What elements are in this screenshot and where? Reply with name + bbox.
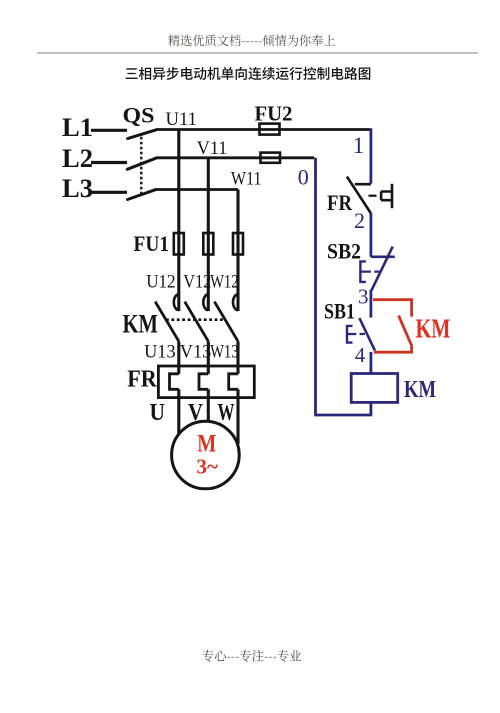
- svg-text:SB2: SB2: [327, 239, 361, 264]
- svg-text:U11: U11: [166, 109, 198, 130]
- svg-text:M: M: [197, 431, 216, 458]
- wire zero rail: [316, 158, 371, 415]
- node L2: [91, 161, 127, 164]
- fuse FU1a: [174, 233, 184, 255]
- pushbutton SB2 hinge: [371, 255, 395, 258]
- wire to motor W: [236, 389, 239, 444]
- SB1 plunger: [347, 326, 353, 343]
- node L3: [91, 191, 127, 194]
- fuse FU1b: [203, 233, 213, 255]
- title: [126, 67, 371, 80]
- svg-text:3: 3: [358, 285, 369, 309]
- svg-text:3~: 3~: [197, 455, 219, 479]
- svg-text:2: 2: [354, 208, 365, 233]
- svg-text:KM: KM: [404, 377, 436, 403]
- wire V11: [156, 156, 314, 159]
- wire U13: [177, 341, 180, 374]
- wire V phase: [207, 158, 210, 311]
- wire U11: [156, 128, 370, 131]
- wire U phase: [177, 130, 180, 312]
- node L1: [91, 129, 127, 132]
- thermal relay FR box: [158, 366, 254, 398]
- fuse FU2b: [261, 153, 281, 163]
- fuse FU2a: [260, 124, 280, 135]
- svg-text:U12: U12: [146, 272, 175, 293]
- wire W phase: [236, 190, 239, 312]
- FR heater jog: [199, 374, 208, 390]
- svg-text:FR: FR: [327, 190, 353, 215]
- contactor KM main contact arc: [203, 294, 208, 310]
- wire to motor V: [207, 389, 210, 421]
- svg-text:KM: KM: [416, 314, 451, 344]
- fuse FU1c: [233, 233, 243, 255]
- svg-text:U: U: [150, 400, 166, 426]
- wire to motor U: [177, 389, 180, 434]
- SB2 plunger: [360, 261, 366, 282]
- switch QS blade 1: [128, 130, 156, 139]
- header rule: [37, 52, 478, 54]
- svg-text:V11: V11: [197, 138, 228, 159]
- svg-text:FU1: FU1: [134, 231, 170, 256]
- svg-text:V12: V12: [183, 272, 211, 293]
- svg-text:L1: L1: [62, 113, 93, 142]
- svg-text:KM: KM: [123, 310, 159, 339]
- svg-text:4: 4: [355, 343, 366, 367]
- wire node1 rail: [369, 128, 372, 183]
- FR contact blade: [347, 177, 371, 213]
- pushbutton SB2 blade: [372, 247, 393, 291]
- coil KM: [351, 374, 398, 403]
- wire W13: [236, 341, 239, 374]
- svg-text:L3: L3: [62, 174, 93, 203]
- footer text: [202, 650, 301, 662]
- svg-text:U13: U13: [144, 342, 176, 363]
- contactor KM main contact blade: [214, 302, 238, 342]
- svg-text:W11: W11: [231, 169, 262, 190]
- svg-text:W13: W13: [210, 342, 239, 363]
- FR contact hinge: [355, 183, 371, 186]
- QS linkage dotted: [140, 137, 142, 196]
- svg-text:SB1: SB1: [324, 298, 355, 323]
- switch QS blade 3: [128, 190, 156, 200]
- FR actuator dash: [369, 195, 377, 197]
- contactor KM main contact arc: [233, 294, 238, 310]
- KM linkage dotted: [166, 318, 225, 321]
- svg-text:W: W: [218, 400, 235, 426]
- svg-text:L2: L2: [62, 144, 93, 173]
- svg-text:FR: FR: [127, 367, 157, 393]
- SB2 plunger dash: [361, 271, 379, 273]
- wire W11: [156, 188, 238, 191]
- switch QS blade 2: [127, 158, 156, 169]
- svg-text:V13: V13: [180, 342, 212, 363]
- motor M circle: [172, 421, 240, 489]
- KM aux contact return: [374, 345, 412, 352]
- svg-text:1: 1: [353, 133, 365, 158]
- FR heater jog: [229, 374, 238, 390]
- FR actuator bracket: [381, 184, 392, 209]
- wire rail seg3: [369, 290, 372, 318]
- FR heater jog: [170, 374, 179, 390]
- svg-text:FU2: FU2: [255, 102, 293, 126]
- contactor KM main contact arc: [174, 294, 179, 310]
- header text: [168, 35, 335, 47]
- KM aux contact blade: [399, 316, 412, 346]
- KM aux contact branch: [373, 300, 412, 317]
- contactor KM main contact blade: [155, 302, 179, 342]
- SB1 plunger dash: [348, 333, 365, 335]
- svg-text:0: 0: [298, 165, 309, 190]
- svg-text:QS: QS: [123, 102, 155, 127]
- wire rail seg4: [369, 352, 372, 374]
- contactor KM main contact blade: [185, 302, 209, 342]
- wire V13: [207, 341, 210, 374]
- pushbutton SB1 blade: [359, 318, 375, 351]
- wire rail seg2: [369, 213, 372, 257]
- svg-text:W12: W12: [210, 272, 239, 293]
